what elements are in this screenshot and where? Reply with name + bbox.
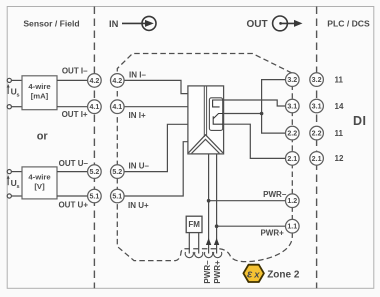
separator sensor/in (left dashed vertical) <box>93 7 95 289</box>
svg-text:PWR–: PWR– <box>203 260 212 284</box>
svg-text:3.2: 3.2 <box>312 76 322 84</box>
svg-text:4.1: 4.1 <box>89 103 99 111</box>
svg-text:1.2: 1.2 <box>287 197 297 205</box>
svg-text:3.2: 3.2 <box>287 76 297 84</box>
terminal 3.1 device output <box>286 99 300 113</box>
svg-text:IN: IN <box>109 18 119 29</box>
terminal 2.1 device output <box>286 152 300 166</box>
wire <box>11 195 22 197</box>
wire contact top to 3.1 <box>224 100 286 106</box>
amplifier block U1 <box>188 86 224 154</box>
svg-text:1.1: 1.1 <box>287 223 297 231</box>
terminal 4.2 device input <box>111 74 125 88</box>
svg-text:Zone 2: Zone 2 <box>267 269 300 280</box>
wire contact mid to bus <box>224 113 262 115</box>
terminal 5.1 sensor side <box>88 189 102 203</box>
junction dot pwr+ <box>215 224 219 228</box>
socket connector FM left <box>185 252 193 258</box>
terminal 3.1 plc side <box>310 99 324 113</box>
FM leg right <box>198 233 200 254</box>
terminal 1.2 device power <box>286 194 300 208</box>
isolation chevron <box>189 135 223 153</box>
svg-text:PLC / DCS: PLC / DCS <box>327 19 370 29</box>
wire 5.1 to block <box>124 142 188 196</box>
wire to 1.1 <box>217 225 286 227</box>
terminal 4.1 device input <box>111 100 125 114</box>
terminal 2.1 plc side <box>310 152 324 166</box>
svg-text:5.1: 5.1 <box>112 193 122 201</box>
svg-text:2.2: 2.2 <box>312 130 322 138</box>
arrow up pwr- <box>206 238 211 245</box>
terminal circle top <box>7 78 11 82</box>
contact bottom <box>213 114 223 125</box>
svg-text:PWR–: PWR– <box>263 190 287 199</box>
svg-text:[V]: [V] <box>34 182 45 191</box>
svg-text:11: 11 <box>335 129 344 138</box>
svg-text:OUT I–: OUT I– <box>62 67 88 76</box>
wire to 4.1 <box>57 106 88 108</box>
terminal 4.1 sensor side <box>88 100 102 114</box>
svg-text:x: x <box>253 270 260 281</box>
svg-text:s: s <box>17 184 20 190</box>
power wire left <box>208 154 210 254</box>
wire <box>11 79 22 81</box>
svg-text:5.2: 5.2 <box>112 168 122 176</box>
wire to 1.2 <box>209 200 286 202</box>
svg-text:5.1: 5.1 <box>89 193 99 201</box>
divider double line <box>203 86 205 137</box>
terminal 2.2 plc side <box>310 126 324 140</box>
device boundary dashed loop <box>117 54 292 262</box>
svg-text:PWR+: PWR+ <box>260 228 284 237</box>
wire 4.1 to block <box>124 106 188 108</box>
terminal 5.2 device input <box>111 165 125 179</box>
svg-text:5.2: 5.2 <box>89 168 99 176</box>
Us arrow label 2 <box>7 175 20 190</box>
svg-text:4-wire: 4-wire <box>28 82 51 91</box>
arrow up pwr+ <box>214 238 219 245</box>
wire 4.2 to block <box>124 80 188 93</box>
wire <box>11 171 22 173</box>
wire <box>11 106 22 108</box>
contact top <box>213 100 223 107</box>
svg-text:14: 14 <box>335 102 344 111</box>
box 4-wire [V] <box>22 167 57 199</box>
Ex zone 2 logo <box>243 265 264 282</box>
svg-text:OUT U+: OUT U+ <box>58 200 88 209</box>
terminal 2.2 device output <box>286 126 300 140</box>
svg-text:3.1: 3.1 <box>287 103 297 111</box>
separator out/plc (right dashed vertical) <box>316 7 318 289</box>
terminal circle bottom <box>7 105 11 109</box>
header IN symbol <box>109 16 156 30</box>
terminal circle top <box>7 170 11 174</box>
svg-text:IN U–: IN U– <box>129 162 150 171</box>
4-wire mA sensor group <box>7 76 87 110</box>
terminal 5.2 sensor side <box>88 165 102 179</box>
svg-text:IN I+: IN I+ <box>129 111 146 120</box>
FM box <box>186 216 202 232</box>
svg-text:PWR+: PWR+ <box>213 260 222 284</box>
header OUT symbol <box>247 16 303 31</box>
inner contact box <box>209 98 222 131</box>
svg-text:FM: FM <box>188 220 200 229</box>
terminal 5.1 device input <box>111 189 125 203</box>
FM leg left <box>188 233 190 254</box>
junction dot pwr- <box>207 199 211 203</box>
terminal 3.2 device output <box>286 73 300 87</box>
power wire right <box>216 154 218 254</box>
svg-text:[mA]: [mA] <box>31 91 49 100</box>
svg-text:or: or <box>37 131 49 143</box>
svg-text:3.1: 3.1 <box>312 103 322 111</box>
svg-text:DI: DI <box>353 114 367 128</box>
svg-text:2.1: 2.1 <box>287 155 297 163</box>
svg-text:IN U+: IN U+ <box>128 201 149 210</box>
svg-text:4.2: 4.2 <box>112 77 122 85</box>
socket connector PWR- <box>205 252 213 258</box>
svg-text:4.2: 4.2 <box>89 77 99 85</box>
socket connector FM right <box>195 252 203 258</box>
wire bus to 3.2 <box>262 80 286 134</box>
svg-text:OUT I+: OUT I+ <box>62 110 88 119</box>
terminal 4.2 sensor side <box>88 74 102 88</box>
wire to 4.2 <box>57 79 88 81</box>
Us arrow label 1 <box>7 84 20 99</box>
svg-text:4-wire: 4-wire <box>28 173 51 182</box>
wire to 5.1 <box>57 195 88 197</box>
wire 5.2 to block <box>124 124 188 171</box>
svg-text:OUT U–: OUT U– <box>59 159 89 168</box>
svg-text:OUT: OUT <box>247 19 268 30</box>
svg-text:2.2: 2.2 <box>287 130 297 138</box>
svg-text:ε: ε <box>247 269 253 281</box>
wire to 5.2 <box>57 171 88 173</box>
svg-text:Sensor / Field: Sensor / Field <box>23 19 79 29</box>
4-wire V sensor group <box>7 167 87 199</box>
svg-text:4.1: 4.1 <box>112 103 122 111</box>
socket connector PWR+ <box>214 252 222 258</box>
wire contact bottom to 2.1 <box>224 124 286 158</box>
box 4-wire [mA] <box>22 76 57 110</box>
terminal circle bottom <box>7 194 11 198</box>
junction dot <box>260 112 264 116</box>
terminal 1.1 device power <box>286 219 300 233</box>
svg-text:s: s <box>17 93 20 99</box>
svg-text:12: 12 <box>335 154 344 163</box>
svg-text:11: 11 <box>335 75 344 84</box>
svg-text:IN I–: IN I– <box>129 70 146 79</box>
terminal 3.2 plc side <box>310 73 324 87</box>
svg-text:2.1: 2.1 <box>312 155 322 163</box>
